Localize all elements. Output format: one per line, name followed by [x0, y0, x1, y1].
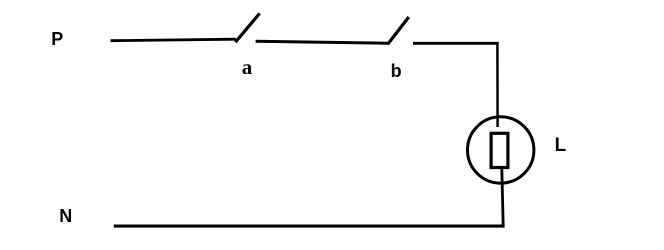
- wire: [496, 42, 499, 127]
- svg-text:a: a: [242, 55, 253, 79]
- label b: [391, 61, 402, 81]
- wire: [413, 42, 499, 45]
- wire: [502, 168, 503, 226]
- switch a: [235, 13, 259, 42]
- label L: [555, 135, 567, 156]
- svg-text:N: N: [59, 206, 72, 226]
- svg-text:P: P: [51, 29, 63, 49]
- wire: [114, 225, 505, 228]
- node P: [51, 29, 63, 49]
- switch b: [388, 17, 409, 44]
- wire: [111, 39, 236, 41]
- svg-text:b: b: [391, 61, 402, 81]
- lamp L: [468, 117, 534, 183]
- node N: [59, 206, 72, 226]
- wire: [256, 41, 388, 43]
- svg-text:L: L: [555, 135, 567, 156]
- label a: [242, 55, 253, 79]
